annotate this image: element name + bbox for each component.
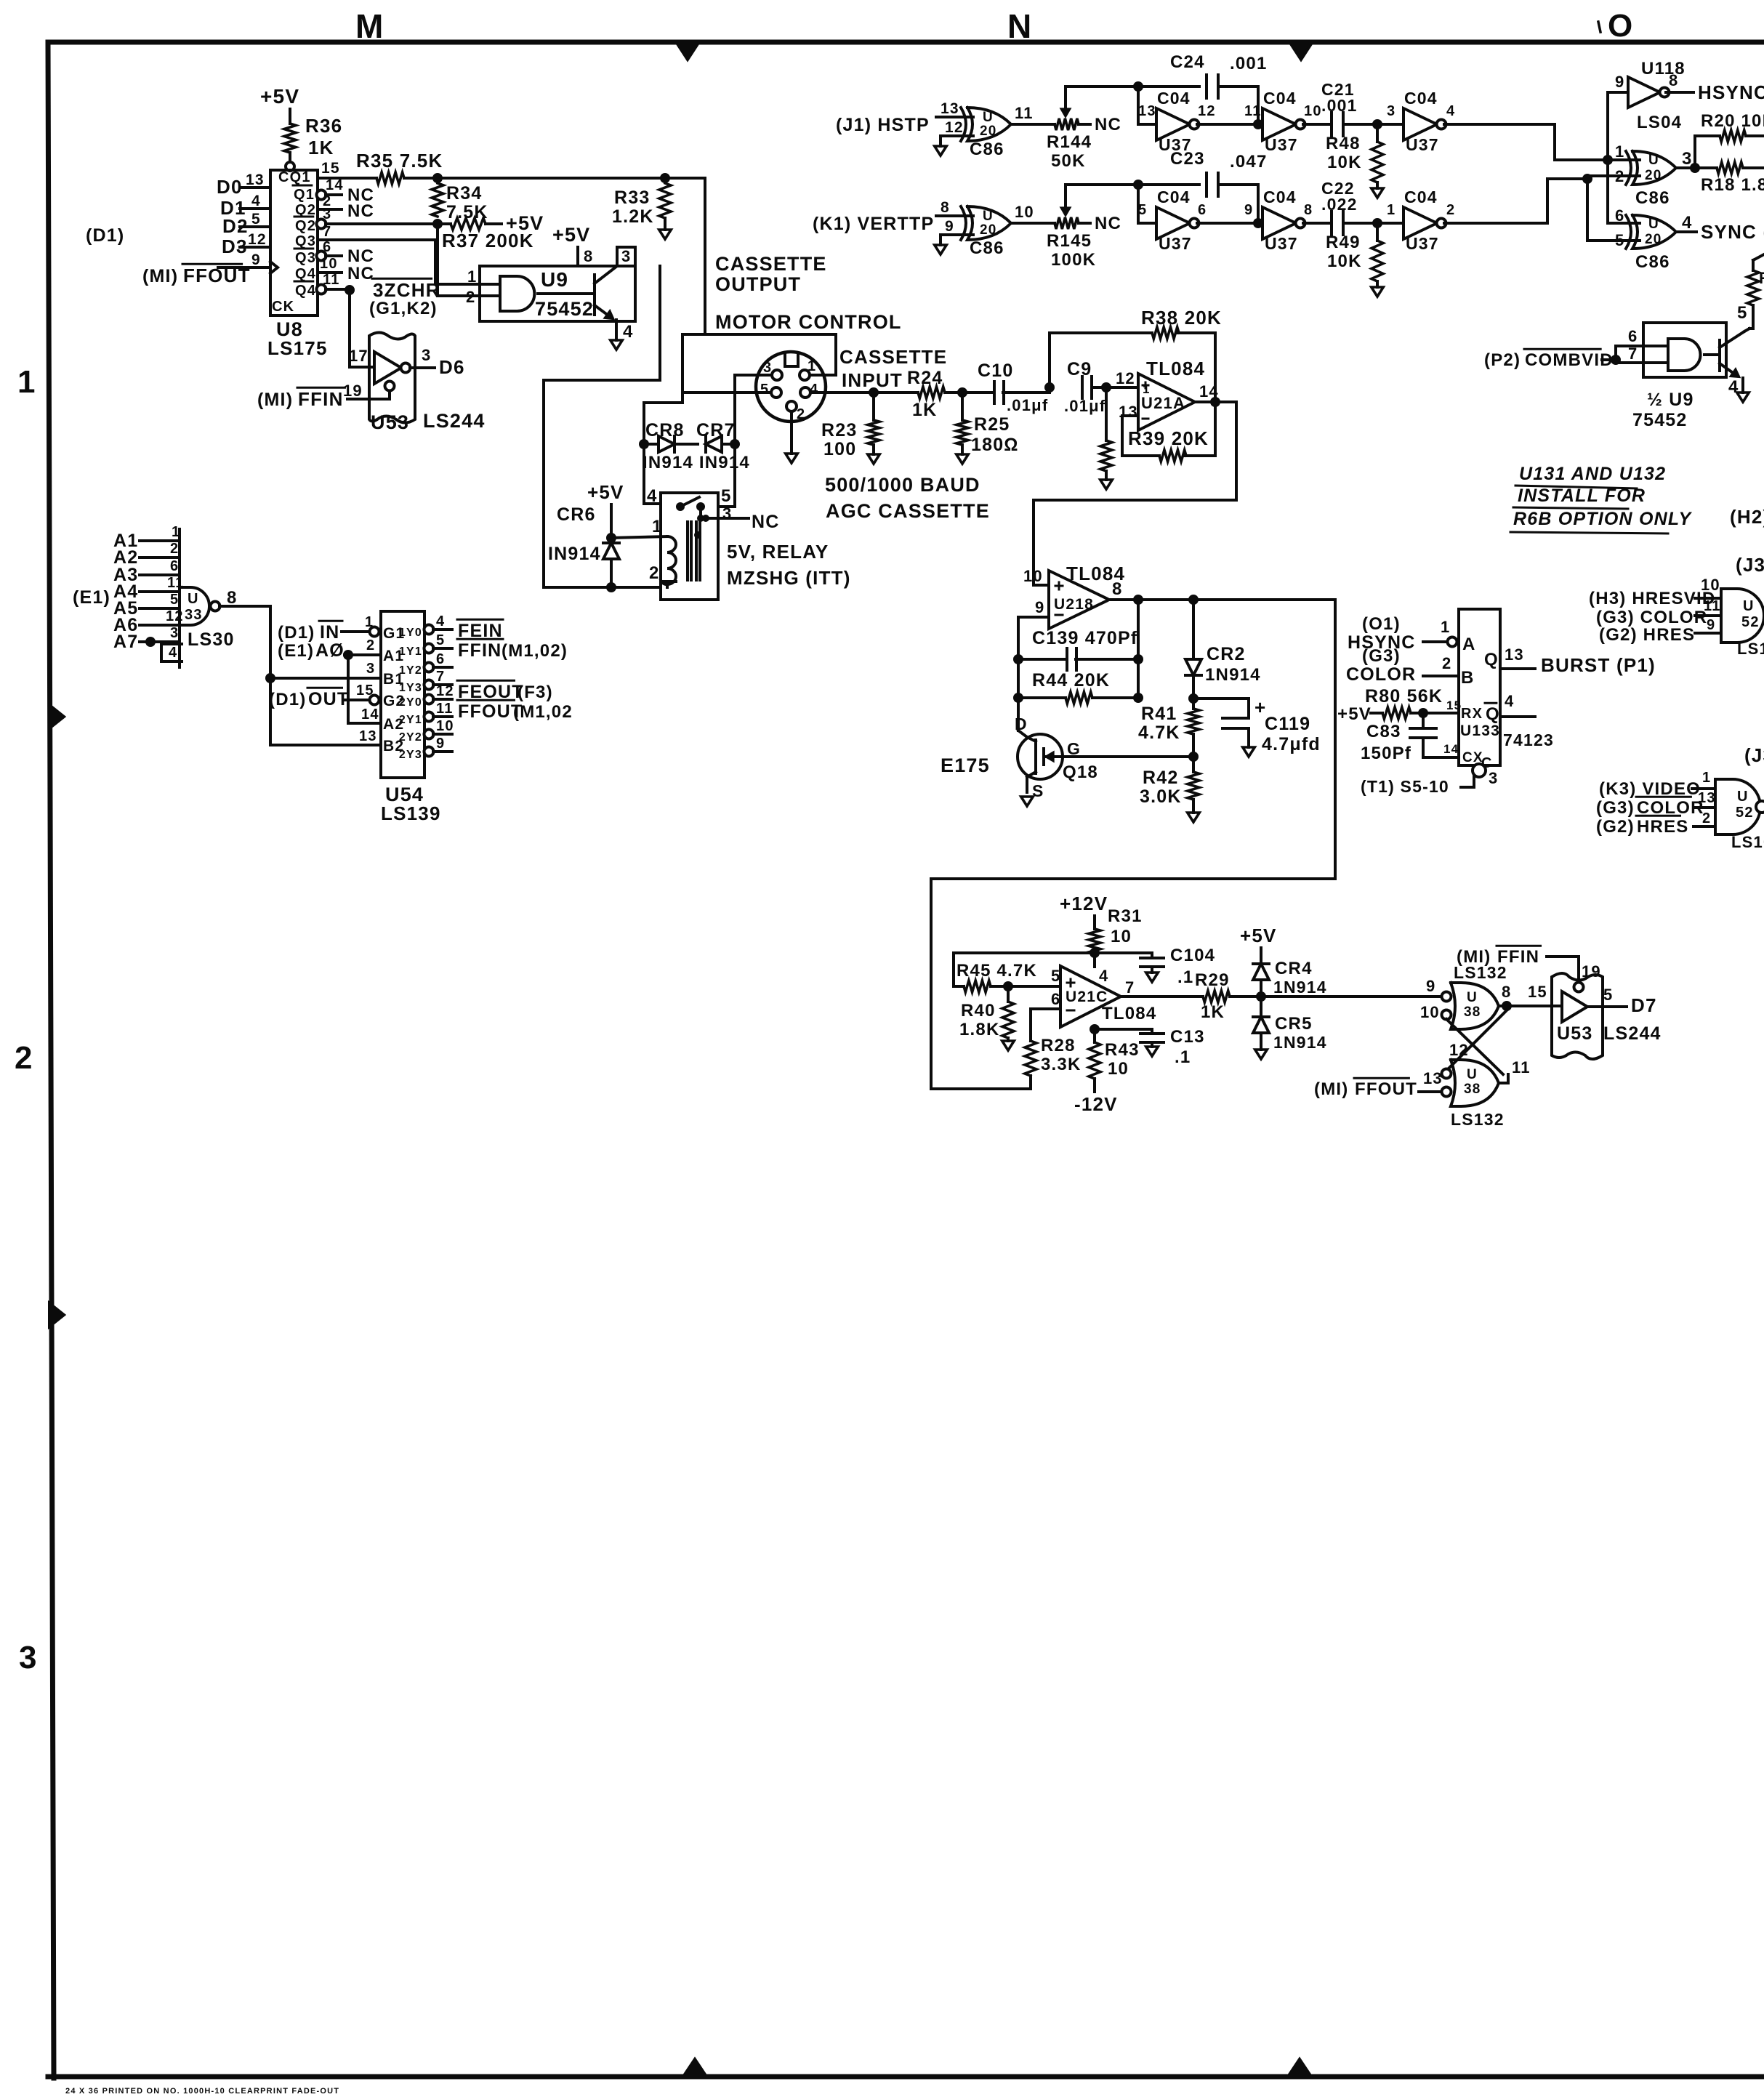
svg-text:13: 13 <box>941 100 959 117</box>
svg-text:13: 13 <box>1138 103 1156 119</box>
net A0 to U54 A1 <box>278 637 404 664</box>
svg-text:(E1): (E1) <box>278 641 314 661</box>
capacitor C10 .01uf <box>978 361 1048 414</box>
resistor R39 20K <box>1128 427 1209 462</box>
net COLOR to U133 <box>1346 646 1475 688</box>
svg-text:INSTALL FOR: INSTALL FOR <box>1518 486 1646 506</box>
power +5V (R80) <box>1337 704 1382 724</box>
svg-text:12: 12 <box>436 683 454 699</box>
ground below R40 <box>1002 1038 1015 1050</box>
svg-text:LS132: LS132 <box>1451 1110 1505 1129</box>
svg-text:C86: C86 <box>1635 188 1670 208</box>
svg-text:15: 15 <box>1528 983 1547 1001</box>
ground below C104 <box>1146 973 1159 982</box>
U54 output 2Y3 pin 9 <box>399 736 452 761</box>
svg-text:2: 2 <box>1702 810 1711 826</box>
svg-text:11: 11 <box>323 272 340 288</box>
svg-text:.001: .001 <box>1321 96 1358 115</box>
net FFIN (latch) <box>1457 946 1601 981</box>
node hsync branch <box>1603 155 1613 165</box>
svg-text:U: U <box>1743 598 1755 614</box>
node U38a out <box>1499 983 1526 1011</box>
svg-text:1Y0: 1Y0 <box>399 627 422 639</box>
U8 pin 14 nc <box>317 177 375 205</box>
inverter U37 a ((K1) VERTTP) <box>1138 188 1207 253</box>
wire R80 to U133 pin15 <box>1411 699 1483 722</box>
svg-text:R25: R25 <box>974 414 1010 435</box>
node U21A out <box>1210 397 1220 407</box>
U9 emitter ground <box>611 320 634 350</box>
svg-text:(O1): (O1) <box>1362 614 1401 634</box>
svg-text:MZSHG (ITT): MZSHG (ITT) <box>727 567 851 589</box>
svg-text:5: 5 <box>760 382 769 398</box>
svg-text:R20 10K: R20 10K <box>1701 111 1764 131</box>
svg-text:3: 3 <box>1387 103 1396 119</box>
svg-text:5: 5 <box>721 486 732 506</box>
svg-text:6: 6 <box>323 239 331 255</box>
svg-text:U37: U37 <box>1159 234 1192 253</box>
node CR8 left <box>639 439 649 449</box>
svg-text:C23: C23 <box>1170 149 1205 169</box>
wire U21C pin11 down <box>1090 1024 1100 1042</box>
wire CR8 node rail <box>644 334 682 504</box>
U54 output 1Y3 pin 7 <box>399 669 452 694</box>
svg-text:3: 3 <box>1489 769 1498 787</box>
diode CR5 1N914 <box>1253 997 1327 1052</box>
svg-text:10: 10 <box>1420 1003 1440 1021</box>
resistor R19 video <box>1747 269 1764 305</box>
wire hsync down to pin6 <box>1608 160 1640 223</box>
net (J1) HSTP input <box>836 100 973 146</box>
svg-text:LS139: LS139 <box>381 802 441 824</box>
U133 Q output BURST <box>1484 645 1656 676</box>
net FEIN label <box>457 619 503 641</box>
svg-text:9: 9 <box>1615 73 1624 91</box>
node CR7 right <box>730 439 740 449</box>
svg-text:4: 4 <box>436 613 445 629</box>
resistor R80 56K <box>1365 686 1443 719</box>
feedback rail right <box>1137 600 1140 698</box>
U53 D7 labels <box>1557 1023 1662 1044</box>
svg-text:LS10: LS10 <box>1731 833 1764 851</box>
wire vert chain to combiner <box>1444 176 1640 223</box>
svg-text:10K: 10K <box>1327 251 1362 271</box>
svg-text:2: 2 <box>1442 654 1451 672</box>
svg-text:5: 5 <box>1603 986 1613 1004</box>
wire to C21 <box>1303 123 1332 126</box>
svg-text:74123: 74123 <box>1503 730 1554 749</box>
zone tick top 1 <box>678 45 697 60</box>
wire R29 to CR4 node <box>1230 995 1443 998</box>
node C9 out <box>1101 382 1111 393</box>
svg-text:2Y3: 2Y3 <box>399 749 422 761</box>
svg-text:.1: .1 <box>1175 1047 1191 1067</box>
wire gate to R144 <box>1012 123 1055 126</box>
U54 output 2Y0 pin 12 <box>399 683 454 709</box>
node A0 branch <box>343 650 353 660</box>
zone letter O <box>1598 8 1633 44</box>
wire Q1 net corner to motor box <box>665 178 705 334</box>
wire comp out <box>1676 163 1700 173</box>
border frame top edge <box>48 40 1764 45</box>
zone tick left 1 <box>49 705 64 728</box>
node C139 right <box>1133 654 1143 664</box>
power +5V (R36) <box>260 85 299 108</box>
svg-text:CQ1: CQ1 <box>278 169 311 185</box>
svg-text:9: 9 <box>1707 617 1715 633</box>
svg-text:(E1): (E1) <box>73 587 110 608</box>
svg-text:R40: R40 <box>961 1001 996 1021</box>
node feedback rail top <box>1133 595 1143 605</box>
svg-text:NC: NC <box>347 246 374 266</box>
wire DIN pin2 to ground <box>786 411 798 463</box>
svg-text:6: 6 <box>1198 202 1207 218</box>
svg-text:+12V: +12V <box>1060 893 1108 914</box>
U53 D6 inverter triangle <box>374 352 411 391</box>
motor control box <box>682 334 836 375</box>
svg-text:(G2) HRES: (G2) HRES <box>1599 625 1695 645</box>
svg-text:CASSETTE: CASSETTE <box>839 346 947 368</box>
svg-text:D0: D0 <box>217 176 243 198</box>
svg-text:(M1,02: (M1,02 <box>513 702 573 722</box>
svg-text:NC: NC <box>347 264 374 283</box>
svg-text:R29: R29 <box>1195 970 1230 990</box>
svg-text:U218: U218 <box>1054 596 1094 613</box>
relay pin3 nc <box>702 504 780 532</box>
svg-text:U37: U37 <box>1406 234 1439 253</box>
svg-text:-12V: -12V <box>1074 1093 1118 1115</box>
svg-text:C13: C13 <box>1170 1027 1205 1047</box>
svg-text:1: 1 <box>1387 202 1396 218</box>
svg-text:1N914: 1N914 <box>1273 1033 1327 1052</box>
svg-text:D6: D6 <box>439 356 465 378</box>
resistor R40 1.8K <box>959 986 1014 1039</box>
resistor R37 200K <box>438 218 534 251</box>
gate U20 C86 (comp) <box>1615 142 1693 208</box>
svg-text:13: 13 <box>1505 645 1524 664</box>
U8 pin 7 Q3 <box>318 224 435 240</box>
svg-text:(D1): (D1) <box>86 225 124 246</box>
gate U20 C86 ((K1) VERTTP) <box>961 203 1034 258</box>
svg-text:5: 5 <box>170 592 179 608</box>
svg-text:4.7K: 4.7K <box>1138 723 1180 743</box>
svg-text:50K: 50K <box>1051 151 1086 171</box>
svg-text:U: U <box>983 209 994 224</box>
svg-text:B: B <box>1461 668 1475 688</box>
svg-text:C86: C86 <box>970 140 1004 159</box>
net COMBVID <box>1484 349 1621 370</box>
svg-text:+5V: +5V <box>506 212 544 234</box>
svg-text:3ZCHR: 3ZCHR <box>373 279 440 301</box>
svg-text:R33: R33 <box>614 188 650 208</box>
capacitor C83 150pf <box>1361 713 1493 771</box>
svg-text:2Y0: 2Y0 <box>399 696 422 709</box>
svg-text:R31: R31 <box>1108 906 1143 926</box>
title strip fine print <box>65 2087 339 2096</box>
net (H2) <box>1730 506 1764 528</box>
resistor R20 10K <box>1701 111 1764 142</box>
svg-text:9: 9 <box>1035 598 1044 616</box>
wire interstage ((J1) HSTP) <box>1197 119 1263 129</box>
resistor R28 3.3K <box>1025 1036 1082 1076</box>
wire hsync chain to combiner <box>1444 124 1640 160</box>
wire tap to cap row ((K1) VERTTP) <box>1066 180 1199 190</box>
svg-text:C104: C104 <box>1170 946 1215 965</box>
svg-text:1: 1 <box>467 267 477 286</box>
IC 1/2 U9 75452 box <box>1632 323 1726 430</box>
zone number 2 <box>15 1040 33 1076</box>
U8 pin 2 nc <box>318 193 374 221</box>
svg-text:1N914: 1N914 <box>1205 665 1261 685</box>
svg-text:COLOR: COLOR <box>1346 664 1416 685</box>
svg-text:Q1: Q1 <box>294 187 315 203</box>
gate U52b LS10 (video) <box>1596 770 1764 851</box>
net FEOUT label <box>457 680 553 702</box>
svg-text:13: 13 <box>1698 790 1716 806</box>
svg-text:7: 7 <box>1628 345 1638 363</box>
svg-text:9: 9 <box>945 218 954 235</box>
svg-text:4: 4 <box>1099 967 1108 985</box>
svg-text:100K: 100K <box>1051 250 1096 270</box>
svg-text:E175: E175 <box>941 754 990 776</box>
note 500/1000 baud <box>825 474 990 522</box>
svg-text:17: 17 <box>349 347 368 365</box>
svg-text:11: 11 <box>1512 1058 1531 1076</box>
svg-text:U9: U9 <box>541 268 568 291</box>
U9b AND gate <box>1668 339 1701 371</box>
wire R19 to transistor <box>1737 303 1753 329</box>
svg-text:R18 1.8K: R18 1.8K <box>1701 175 1764 195</box>
svg-text:15: 15 <box>321 160 340 177</box>
wire U9 out down to relay <box>544 266 661 587</box>
svg-text:(G2): (G2) <box>1596 817 1635 837</box>
svg-text:6: 6 <box>1628 327 1638 345</box>
svg-text:OUT: OUT <box>308 689 349 709</box>
svg-text:FFIN: FFIN <box>458 640 502 661</box>
svg-text:3: 3 <box>763 360 772 376</box>
svg-text:1: 1 <box>1615 142 1624 161</box>
svg-text:6: 6 <box>170 558 179 574</box>
IC U8 LS175 body <box>267 170 328 359</box>
net FFOUT label <box>457 700 573 722</box>
resistor R33 1.2K <box>612 183 671 227</box>
resistor R42 3.0K <box>1140 757 1199 813</box>
ground (J1) HSTP gate pin <box>935 146 947 156</box>
svg-text:U: U <box>1737 789 1749 805</box>
svg-text:R39 20K: R39 20K <box>1128 427 1209 449</box>
zone tick bottom 1 <box>685 2059 705 2074</box>
svg-text:RX: RX <box>1461 706 1483 722</box>
svg-text:11: 11 <box>436 701 454 717</box>
svg-text:U37: U37 <box>1265 234 1298 253</box>
ground below C119 <box>1243 747 1255 757</box>
svg-text:R145: R145 <box>1047 231 1092 251</box>
diode CR8 1N914 <box>644 420 698 452</box>
wire D7 out <box>1589 986 1657 1016</box>
wire R36 to U8 pin16 <box>286 153 294 171</box>
svg-text:U: U <box>1467 990 1478 1005</box>
svg-text:.022: .022 <box>1321 195 1358 214</box>
U54 output 1Y2 pin 6 <box>399 651 452 677</box>
wire CR7 to relay pin5 <box>718 375 735 507</box>
IC U9 75452 box <box>480 266 635 321</box>
svg-text:2: 2 <box>170 541 179 557</box>
svg-text:10: 10 <box>1108 1059 1129 1079</box>
svg-text:5V, RELAY: 5V, RELAY <box>727 541 829 563</box>
net cassette output label <box>715 253 827 295</box>
U8 pin 3 Q2bar <box>317 206 438 229</box>
IC U133 74123 body <box>1459 609 1554 765</box>
resistor R49 <box>1326 223 1383 281</box>
svg-text:R41: R41 <box>1141 704 1177 724</box>
svg-text:20: 20 <box>980 124 997 139</box>
node CR2/R41/C119 <box>1188 693 1199 704</box>
wire relay pin1 <box>652 517 663 536</box>
svg-text:CASSETTE: CASSETTE <box>715 253 827 275</box>
net (J3) <box>1736 554 1764 576</box>
svg-text:14: 14 <box>1443 742 1459 756</box>
svg-text:(J3): (J3) <box>1736 554 1764 576</box>
svg-text:.01μf: .01μf <box>1007 396 1048 414</box>
svg-text:COMBVID: COMBVID <box>1525 350 1614 370</box>
svg-text:100: 100 <box>823 439 856 459</box>
svg-text:10: 10 <box>1023 567 1043 585</box>
svg-text:R: R <box>1759 269 1764 287</box>
svg-text:15: 15 <box>356 683 374 699</box>
svg-text:C04: C04 <box>1404 188 1438 206</box>
wire latch out to U53 <box>1526 983 1553 1006</box>
wire U218 out <box>1109 598 1335 601</box>
svg-text:12: 12 <box>1198 103 1216 119</box>
svg-text:4: 4 <box>1728 377 1739 397</box>
svg-text:(G3): (G3) <box>1596 798 1635 818</box>
svg-text:LS132: LS132 <box>1454 963 1507 982</box>
net A3 <box>113 558 180 585</box>
ground below R48 <box>1372 182 1384 198</box>
net A7 <box>113 625 182 661</box>
relay switch <box>676 497 705 522</box>
power +5V (relay) <box>587 481 624 503</box>
svg-text:10: 10 <box>1701 576 1720 594</box>
ground below C13 <box>1146 1047 1159 1056</box>
svg-text:LS30: LS30 <box>188 629 235 650</box>
wire R35 to node <box>404 173 665 183</box>
svg-text:(K1) VERTTP: (K1) VERTTP <box>813 214 934 234</box>
U8 pin 10 nc <box>318 256 374 283</box>
svg-text:2: 2 <box>1615 167 1624 185</box>
wire COMBVID to pins <box>1616 327 1668 363</box>
svg-text:(D1): (D1) <box>278 623 315 643</box>
svg-text:2: 2 <box>797 406 805 422</box>
svg-text:R49: R49 <box>1326 233 1361 252</box>
wire Q3 to U9 gate pin1 <box>435 240 500 284</box>
svg-text:OUTPUT: OUTPUT <box>715 273 801 295</box>
zone number 3 <box>19 1640 38 1675</box>
svg-text:2: 2 <box>466 288 475 306</box>
resistor R44 20K <box>1018 670 1138 704</box>
svg-text:C86: C86 <box>1635 252 1670 272</box>
svg-text:LS175: LS175 <box>267 337 328 359</box>
op-amp minus loop <box>1122 402 1215 456</box>
svg-text:1: 1 <box>365 614 374 630</box>
svg-text:1: 1 <box>17 364 36 400</box>
wire +5V to CR6 <box>606 504 616 543</box>
svg-text:2: 2 <box>15 1040 33 1076</box>
svg-text:7: 7 <box>436 669 445 685</box>
inverter U37 b ((J1) HSTP) <box>1244 89 1322 154</box>
diode CR4 1N914 <box>1253 948 1327 997</box>
svg-text:4: 4 <box>1505 692 1514 710</box>
diode CR7 1N914 <box>643 420 750 472</box>
U8 pin 6 nc <box>317 239 375 266</box>
inverter U37 a ((J1) HSTP) <box>1138 89 1216 154</box>
svg-text:5: 5 <box>251 211 261 228</box>
svg-text:10: 10 <box>436 718 454 734</box>
relay pin5 label <box>721 486 732 506</box>
capacitor C21 <box>1321 80 1358 136</box>
svg-text:FFOUT: FFOUT <box>183 265 251 286</box>
zone number 1 <box>17 364 36 400</box>
svg-text:38: 38 <box>1464 1082 1481 1097</box>
feedback top wire <box>1050 333 1215 402</box>
svg-text:R42: R42 <box>1143 768 1178 788</box>
svg-text:(J1) HSTP: (J1) HSTP <box>836 115 930 135</box>
svg-text:U: U <box>1648 153 1659 168</box>
relay box <box>661 493 718 600</box>
svg-text:C04: C04 <box>1157 188 1191 206</box>
svg-text:150Pf: 150Pf <box>1361 744 1411 763</box>
svg-text:Q4: Q4 <box>295 266 316 282</box>
wire video collector feed <box>1753 254 1764 270</box>
wire R45 branch <box>954 953 964 986</box>
resistor R43 10 <box>1089 1040 1140 1079</box>
U8 pin 9 FFOUT clock <box>142 251 278 286</box>
node R44 left <box>1013 693 1023 703</box>
svg-text:6: 6 <box>1615 206 1624 225</box>
svg-text:U21A: U21A <box>1141 394 1185 412</box>
resistor R23 100 <box>821 393 879 459</box>
power +5V (CR4) <box>1240 925 1277 946</box>
svg-text:NC: NC <box>752 512 780 532</box>
svg-text:11: 11 <box>1704 598 1721 614</box>
tap arrow R145 <box>1062 185 1069 214</box>
svg-text:CR5: CR5 <box>1275 1014 1313 1034</box>
op-amp U218 TL084 <box>1023 563 1125 629</box>
svg-text:Q: Q <box>1484 650 1499 669</box>
svg-text:(J3: (J3 <box>1744 744 1764 766</box>
ground (K1) VERTTP gate pin <box>935 245 947 254</box>
resistor R34 7.5K <box>432 183 488 222</box>
cross wire a <box>1441 1010 1507 1076</box>
net IN to U54 G1 <box>278 614 405 643</box>
U8 internal labels <box>272 169 316 315</box>
svg-text:4: 4 <box>810 382 818 398</box>
svg-text:(G3) COLOR: (G3) COLOR <box>1596 608 1707 627</box>
border frame bottom edge <box>48 2074 1764 2080</box>
wire C23 to interstage <box>1218 185 1258 223</box>
svg-text:IN914: IN914 <box>548 544 601 564</box>
svg-text:2: 2 <box>649 563 660 583</box>
net (J3 cut <box>1744 744 1764 766</box>
svg-text:R48: R48 <box>1326 134 1361 153</box>
svg-text:R38 20K: R38 20K <box>1141 307 1222 329</box>
svg-text:U: U <box>1467 1067 1478 1082</box>
svg-text:14: 14 <box>361 707 379 723</box>
svg-text:(H2): (H2) <box>1730 506 1764 528</box>
svg-text:8: 8 <box>1502 983 1511 1001</box>
U8 pin 13 D0 <box>217 172 270 198</box>
wire R28 to rail <box>931 1076 1031 1089</box>
